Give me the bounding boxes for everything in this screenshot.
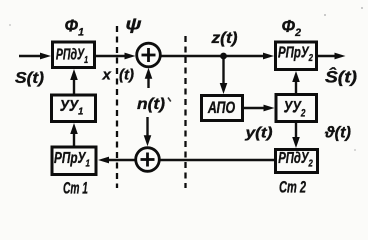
svg-text:Ст 1: Ст 1 [63, 179, 88, 198]
svg-text:z(t): z(t) [210, 30, 237, 47]
svg-text:РПрУ2: РПрУ2 [278, 44, 314, 63]
svg-text:S(t): S(t) [15, 70, 44, 87]
svg-text:РПдУ2: РПдУ2 [278, 149, 313, 168]
svg-text:Ŝ(t): Ŝ(t) [325, 68, 357, 87]
svg-text:x: x [102, 67, 112, 84]
svg-text:y(t): y(t) [244, 125, 272, 142]
svg-text:n(t): n(t) [137, 96, 165, 113]
svg-text:ϑ(t): ϑ(t) [324, 125, 351, 142]
svg-text:РПрУ1: РПрУ1 [54, 149, 90, 168]
svg-text:АПО: АПО [207, 99, 235, 117]
svg-text:(t): (t) [119, 67, 134, 84]
svg-text:Ст 2: Ст 2 [279, 178, 306, 197]
svg-text:РПдУ1: РПдУ1 [56, 45, 88, 65]
svg-text:ψ: ψ [126, 15, 142, 34]
